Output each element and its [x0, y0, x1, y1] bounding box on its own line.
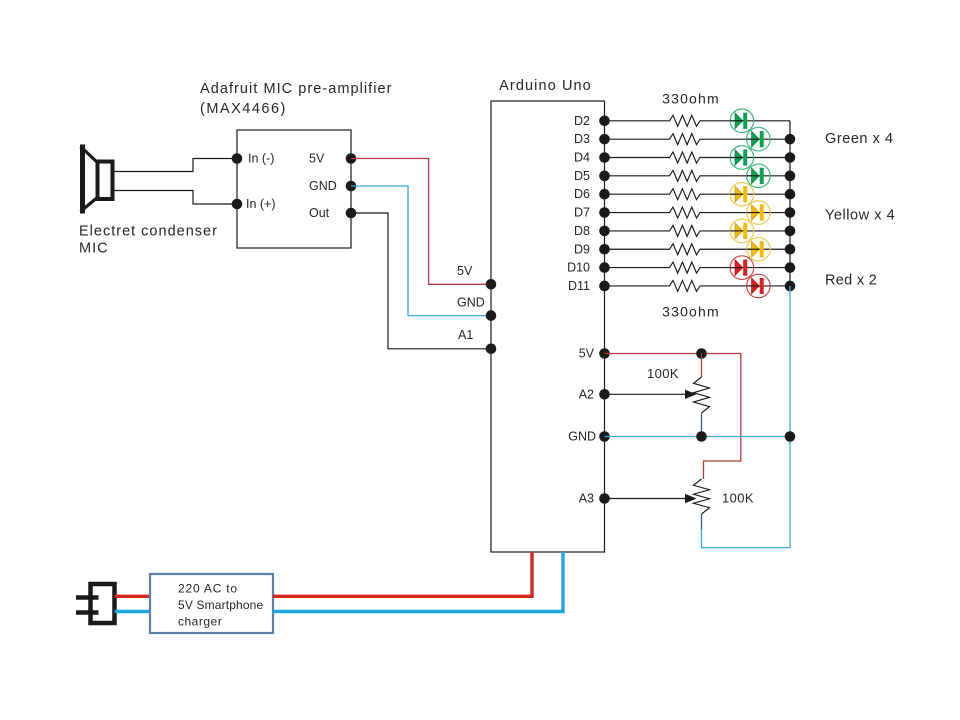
- svg-text:100K: 100K: [647, 366, 679, 381]
- svg-text:A1: A1: [458, 328, 473, 342]
- svg-text:D7: D7: [574, 206, 590, 220]
- LED red on D11 row: [747, 274, 771, 298]
- wire: plug to charger live (red): [115, 595, 153, 598]
- junction node: LED bus at D10 row: [785, 262, 796, 273]
- svg-text:In (-): In (-): [248, 152, 274, 166]
- power plug: 220V AC mains plug: [76, 584, 115, 623]
- svg-text:D5: D5: [574, 169, 590, 183]
- junction node: LED bus at D11 row: [785, 281, 796, 292]
- pin GND (right) of Arduino: [568, 430, 610, 444]
- wire signal: U1 Out to Arduino A1: [351, 213, 491, 349]
- pin D11 of Arduino: [568, 279, 610, 293]
- svg-text:GND: GND: [457, 296, 485, 310]
- wire 5V net to potentiometers (red): [605, 354, 741, 480]
- pin A1 of Arduino: [458, 328, 496, 354]
- wire D5 row with resistor lead: [605, 170, 791, 181]
- wire: charger 5V output to Arduino (red thick): [273, 552, 532, 596]
- pin GND (left) of Arduino: [457, 296, 496, 321]
- module U1: Adafruit MIC pre-amplifier MAX4466 box: [237, 130, 351, 248]
- junction node: LED bus at D3 row: [785, 134, 796, 145]
- pin D10 of Arduino: [567, 261, 610, 275]
- potentiometer 100K (upper, A2): [694, 377, 710, 413]
- pin A3 of Arduino: [579, 492, 610, 506]
- LED yellow on D7 row: [747, 201, 771, 225]
- svg-text:Out: Out: [309, 206, 330, 220]
- junction node: 5V at pot1 top: [696, 348, 707, 359]
- pin In(-) of U1: [232, 152, 275, 166]
- junction node: LED bus at D6 row: [785, 189, 796, 200]
- wire D2 row with resistor lead: [605, 115, 791, 126]
- svg-text:GND: GND: [568, 430, 596, 444]
- junction node: LED bus at D8 row: [785, 226, 796, 237]
- wire: pot1 bottom lead to GND (dark blue): [701, 413, 703, 437]
- junction node: GND line at right cyan bus: [785, 431, 796, 442]
- wire: 5V junction down to pot1 (red): [701, 354, 703, 378]
- junction node: LED bus at D9 row: [785, 244, 796, 255]
- svg-text:Arduino Uno: Arduino Uno: [499, 78, 592, 94]
- wire D3 row with resistor lead: [605, 134, 791, 145]
- svg-text:D11: D11: [568, 279, 590, 293]
- pin 5V of U1: [309, 152, 356, 166]
- svg-text:Adafruit MIC pre-amplifier: Adafruit MIC pre-amplifier: [200, 81, 393, 97]
- wire 5V net: U1 5V to Arduino left 5V (red): [351, 159, 491, 285]
- microphone: electret condenser MIC: [81, 145, 113, 214]
- wire D4 row with resistor lead: [605, 152, 791, 163]
- svg-text:GND: GND: [309, 179, 337, 193]
- svg-text:D3: D3: [574, 132, 590, 146]
- pin A2 of Arduino: [579, 387, 610, 401]
- LED green on D5 row: [747, 164, 771, 188]
- wire GND net: Arduino GND to right bus (cyan): [605, 436, 791, 438]
- svg-text:5V Smartphone: 5V Smartphone: [178, 598, 264, 612]
- svg-text:220 AC to: 220 AC to: [178, 582, 238, 596]
- LED yellow on D6 row: [730, 182, 754, 206]
- wire: pot2 bottom to right bus (cyan): [702, 529, 791, 548]
- pin D2 of Arduino: [574, 114, 610, 128]
- pin 5V (right) of Arduino: [579, 347, 610, 361]
- svg-text:Green x 4: Green x 4: [825, 131, 894, 147]
- svg-text:D10: D10: [567, 261, 590, 275]
- wire: mic top lead to In(-): [113, 159, 238, 172]
- pin D7 of Arduino: [574, 206, 610, 220]
- svg-text:D9: D9: [574, 242, 590, 256]
- svg-text:100K: 100K: [722, 491, 754, 506]
- pin In(+) of U1: [232, 197, 276, 211]
- svg-text:In (+): In (+): [246, 197, 276, 211]
- pin D6 of Arduino: [574, 187, 610, 201]
- pin Out of U1: [309, 206, 356, 220]
- svg-text:5V: 5V: [457, 264, 473, 278]
- wire D7 row with resistor lead: [605, 207, 791, 218]
- wire: A3 wiper arrow: [605, 494, 697, 503]
- LED green on D3 row: [747, 127, 771, 151]
- wire: plug to charger neutral (cyan): [115, 610, 153, 613]
- pin GND of U1: [309, 179, 356, 193]
- LED green on D4 row: [730, 146, 754, 170]
- wire D9 row with resistor lead: [605, 244, 791, 255]
- svg-text:(MAX4466): (MAX4466): [200, 101, 287, 117]
- svg-text:330ohm: 330ohm: [662, 304, 720, 320]
- wire D11 row with resistor lead: [605, 280, 791, 291]
- svg-text:Electret condenser: Electret condenser: [79, 224, 218, 240]
- pin D4 of Arduino: [574, 151, 610, 165]
- svg-text:D8: D8: [574, 224, 590, 238]
- wire: mic bottom lead to In(+): [113, 191, 238, 205]
- svg-text:330ohm: 330ohm: [662, 91, 720, 107]
- LED yellow on D9 row: [747, 237, 771, 261]
- wire: LED bus down to GND and pot2 (cyan vertical): [789, 286, 791, 548]
- junction node: LED bus at D5 row: [785, 171, 796, 182]
- svg-text:Yellow x 4: Yellow x 4: [825, 208, 895, 224]
- LED green on D2 row: [730, 109, 754, 133]
- label: Electret condenser MIC: [79, 224, 218, 257]
- potentiometer 100K (lower, A3): [694, 479, 710, 514]
- pin 5V (left) of Arduino: [457, 264, 496, 290]
- wire: A2 wiper arrow: [605, 390, 697, 399]
- LED red on D10 row: [730, 256, 754, 280]
- wire D8 row with resistor lead: [605, 225, 791, 236]
- wire D10 row with resistor lead: [605, 262, 791, 273]
- svg-text:A3: A3: [579, 492, 594, 506]
- svg-text:D2: D2: [574, 114, 590, 128]
- wire: charger GND output to Arduino (cyan thick): [273, 552, 563, 612]
- wire D6 row with resistor lead: [605, 189, 791, 200]
- junction node: LED bus at D4 row: [785, 152, 796, 163]
- junction node: pot1 bottom on GND line: [696, 431, 707, 442]
- pin D8 of Arduino: [574, 224, 610, 238]
- wire: pot2 bottom lead (dark blue): [701, 514, 703, 529]
- svg-text:MIC: MIC: [79, 241, 109, 257]
- svg-text:Red x 2: Red x 2: [825, 273, 877, 289]
- module: 220 AC to 5V smartphone charger: [150, 574, 273, 633]
- junction node: LED bus at D7 row: [785, 207, 796, 218]
- pin D9 of Arduino: [574, 242, 610, 256]
- pin D5 of Arduino: [574, 169, 610, 183]
- svg-text:5V: 5V: [579, 347, 595, 361]
- label: Adafruit MIC pre-amplifier (MAX4466): [200, 81, 393, 117]
- pin D3 of Arduino: [574, 132, 610, 146]
- svg-text:D4: D4: [574, 151, 590, 165]
- LED yellow on D8 row: [730, 219, 754, 243]
- svg-text:charger: charger: [178, 615, 222, 629]
- wire GND net: U1 GND to Arduino left GND (cyan): [351, 186, 491, 316]
- module: Arduino Uno box: [491, 101, 605, 552]
- svg-text:D6: D6: [574, 187, 590, 201]
- wire: LED cathode bus (black vertical): [789, 121, 791, 286]
- svg-text:A2: A2: [579, 387, 594, 401]
- svg-text:5V: 5V: [309, 152, 325, 166]
